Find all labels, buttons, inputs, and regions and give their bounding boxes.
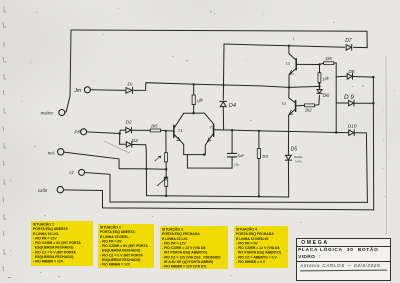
wire CZ/BR vertical right to D8/D9: [372, 77, 374, 210]
wire T4 base to 1k2: [296, 104, 305, 107]
wire rail1 right drop: [366, 31, 368, 47]
terminal labels: [38, 88, 82, 193]
svg-text:25v: 25v: [233, 163, 240, 167]
svg-text:3k5: 3k5: [262, 154, 269, 159]
terminal Jm: [84, 87, 90, 93]
wire T1 base junction down: [165, 131, 167, 169]
wire top rail1: [71, 30, 367, 31]
resistor 10k chain upper body: [165, 153, 168, 162]
wire CZ rail: [85, 173, 368, 203]
title rule 3: [300, 269, 387, 271]
resistor 1k2 body: [305, 104, 315, 107]
wire T1 base to 1k5: [161, 130, 174, 133]
diode D5: [285, 155, 291, 160]
resistor 10k chain lower body: [165, 177, 168, 186]
svg-text:D3: D3: [132, 138, 138, 144]
svg-text:D6: D6: [322, 92, 329, 99]
svg-text:D5: D5: [291, 147, 298, 153]
resistor 1k8 body: [324, 62, 334, 65]
wire CZ rail vertical right: [366, 133, 367, 203]
wire after D1 jog: [134, 83, 320, 91]
svg-text:10k: 10k: [196, 96, 205, 104]
resistor 3k5 leads: [258, 131, 260, 196]
resistor 10k top body: [192, 95, 195, 105]
terminal CZ/BR: [57, 186, 63, 192]
svg-text:0,47k: 0,47k: [295, 159, 302, 163]
svg-text:T1: T1: [178, 128, 183, 133]
wire 1k8 right to ladder vertical: [334, 63, 336, 133]
svg-text:1k2: 1k2: [305, 108, 312, 113]
transistor T4: [289, 98, 295, 103]
capacitor branch wire: [231, 130, 233, 153]
wire D4 vertical from rail2: [222, 44, 225, 100]
title rule 2: [297, 261, 391, 262]
svg-text:D 9: D 9: [344, 94, 354, 101]
arrow mark upper resistor: [155, 156, 161, 161]
stray x mark: [362, 85, 364, 87]
diode D7 in rail2: [346, 45, 352, 51]
situation note 1: [31, 221, 93, 266]
svg-text:mA: mA: [48, 150, 55, 155]
wire cap bottom to emitter bus: [187, 155, 232, 168]
terminal MA/MR: [59, 110, 65, 116]
title OMEGA: [301, 240, 329, 246]
torn left edge marks: [3, 6, 7, 271]
terminal MA: [58, 149, 64, 155]
arrow mark lower resistor: [157, 178, 166, 186]
svg-text:D8: D8: [348, 69, 354, 74]
stray pencil diagonal: [104, 141, 130, 153]
transistor T3: [289, 46, 296, 60]
resistor 10k mid body: [318, 73, 321, 83]
diode D6: [317, 90, 322, 94]
svg-text:8µF: 8µF: [237, 153, 244, 158]
wire trapezoid top: [184, 112, 205, 114]
situation note 4: [234, 226, 288, 269]
svg-text:D7: D7: [345, 38, 352, 44]
diode D8 branch: [336, 75, 347, 77]
terminal PR: [81, 129, 87, 135]
capacitor C 8uF plates: [227, 153, 236, 157]
svg-text:T4: T4: [281, 101, 286, 106]
diode D10 branch: [336, 132, 348, 134]
svg-text:D2: D2: [126, 119, 132, 125]
title block: [296, 238, 392, 281]
diode D3 branch: [120, 134, 127, 145]
wire MA to resistor chain: [64, 152, 166, 169]
wire left vertical from MA/MR: [65, 30, 71, 112]
svg-text:cz: cz: [69, 170, 74, 175]
wire CZ/BR rail: [64, 190, 374, 210]
svg-text:T2: T2: [210, 125, 215, 130]
diode D9 branch: [336, 102, 348, 104]
wire T3 base to 1k8 junction: [296, 63, 319, 65]
terminal CZ: [79, 169, 85, 175]
svg-text:10k: 10k: [322, 75, 330, 82]
svg-text:D4: D4: [229, 103, 236, 109]
svg-text:Jm: Jm: [73, 88, 82, 94]
wire T2 base long line right: [214, 130, 337, 133]
wire 1k2 to D6: [315, 95, 320, 105]
title line vidro: [298, 255, 321, 260]
diode D2 in PR path: [87, 130, 126, 133]
transistor T2: [204, 113, 213, 124]
svg-text:ma/mr: ma/mr: [41, 111, 54, 116]
page right edge faint line: [385, 56, 388, 234]
svg-text:PR: PR: [74, 130, 81, 135]
resistor 10k top leads: [193, 84, 195, 113]
title line placa logica: [298, 248, 378, 253]
svg-text:1k8: 1k8: [325, 56, 332, 61]
transistor T1: [174, 113, 183, 127]
wire bottom rail: [146, 169, 288, 197]
title rule 1: [297, 246, 391, 247]
situation note 2: [98, 224, 154, 267]
wire rail2: [224, 44, 345, 47]
svg-text:T3: T3: [285, 61, 290, 66]
wire D6 top: [318, 86, 320, 89]
stray tick above rail2: [293, 38, 295, 40]
resistor 10k mid leads: [319, 65, 321, 87]
svg-text:D10: D10: [348, 123, 357, 129]
wire Jm rail: [90, 89, 125, 92]
svg-text:1k5: 1k5: [151, 124, 158, 129]
resistor 10k chain lower leads: [165, 169, 167, 196]
diode D4: [220, 101, 227, 106]
svg-text:Butijão: Butijão: [294, 155, 303, 159]
diode D1: [126, 87, 133, 93]
wire T4 collector up to Jm rail junction: [288, 87, 290, 98]
resistor 3k5 body: [257, 148, 260, 158]
wire rail2 after D7: [354, 46, 368, 48]
title line author/date: [300, 263, 382, 268]
wire D4 to T2 base line: [222, 107, 224, 130]
svg-text:cz/br: cz/br: [38, 188, 48, 193]
wire trapezoid bottom emitters: [184, 154, 206, 156]
wire 1k8 left lead: [320, 63, 324, 64]
resistor 1k5 body: [150, 129, 160, 132]
svg-text:D1: D1: [128, 82, 133, 87]
situation note 3: [160, 226, 228, 269]
wire D5 up to T4 emitter: [287, 115, 289, 155]
wire bottom rail up to D5: [287, 160, 289, 197]
